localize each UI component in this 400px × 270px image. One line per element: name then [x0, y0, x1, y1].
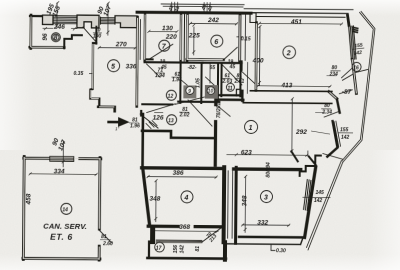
hall13 door swing to room9	[147, 97, 213, 127]
balcony bottom edge	[342, 69, 367, 80]
room 3 outer bottom line	[226, 237, 303, 245]
pier top wall x114-136	[115, 16, 137, 28]
room 4 east wall	[223, 167, 225, 260]
room 9 west wall	[179, 63, 181, 103]
room 2 dim line 451	[259, 22, 342, 25]
hollow wall cores	[23, 13, 357, 261]
room 2 dim line 413	[257, 85, 330, 88]
svg-text:220: 220	[165, 34, 177, 41]
svg-text:1°: 1°	[115, 126, 120, 131]
room 11 east wall	[239, 63, 241, 96]
room 14 outer box	[23, 156, 101, 260]
vestibule door swing	[240, 70, 257, 85]
svg-text:234: 234	[329, 72, 339, 78]
entry hatch marks	[146, 121, 157, 129]
svg-text:270: 270	[115, 41, 127, 48]
svg-text:16: 16	[353, 65, 359, 71]
window band B	[100, 17, 115, 24]
room 17 bottom wall	[147, 257, 225, 260]
room 4 west wall slanted	[142, 168, 150, 226]
svg-text:1.94: 1.94	[172, 77, 182, 83]
svg-text:2.01: 2.01	[233, 79, 244, 85]
room1/room2 divider wall	[243, 91, 332, 104]
svg-text:0.35: 0.35	[74, 71, 84, 77]
room 6 circle	[211, 35, 223, 47]
svg-text:126: 126	[153, 115, 164, 122]
room 9 shaded block	[183, 85, 196, 98]
room 6 door swing	[223, 47, 237, 60]
entry arrow	[109, 121, 120, 124]
room 4 dim line 386	[148, 176, 217, 179]
corner pier left of band A	[42, 15, 53, 24]
svg-text:10: 10	[208, 89, 214, 95]
svg-text:142: 142	[314, 198, 323, 204]
svg-text:130: 130	[162, 25, 173, 32]
entry door swing	[140, 114, 158, 128]
svg-text:145: 145	[315, 190, 324, 196]
corridor shaft line right of room6	[236, 14, 260, 85]
room 17 circle	[155, 242, 165, 252]
room 9 circle	[186, 86, 194, 94]
corridor east wall under room6	[241, 61, 243, 69]
svg-text:155: 155	[340, 127, 349, 133]
svg-text:2: 2	[286, 50, 291, 57]
dim end ticks	[28, 1, 343, 234]
svg-text:3: 3	[264, 195, 268, 202]
svg-text:81: 81	[101, 234, 107, 240]
circled room numbers	[49, 33, 361, 254]
room 14 door swing	[99, 230, 112, 243]
room 5 dim line 270	[99, 47, 136, 49]
room 11 bottom wall	[219, 94, 241, 96]
svg-text:246: 246	[53, 24, 65, 31]
top outer wall rooms 7/6	[137, 11, 251, 15]
balcony 16 window hatch	[348, 26, 356, 60]
svg-text:142: 142	[179, 245, 185, 254]
room 6 west wall	[186, 14, 189, 61]
balcony window top pier	[353, 27, 358, 32]
room 2 top wall	[251, 13, 348, 18]
room1 west wall	[214, 96, 218, 165]
terrace lower edge D2	[307, 153, 343, 250]
room1 east window hatch	[332, 121, 341, 147]
hall12/hall13 divider	[142, 103, 172, 105]
room4 NW connector wall	[141, 114, 144, 167]
svg-text:332: 332	[257, 220, 268, 227]
dim line 246	[43, 27, 77, 29]
tick 0.30	[271, 245, 275, 250]
hall12 door swing	[147, 64, 161, 77]
room1 top-left jog wall	[216, 91, 243, 101]
room 3 top door swing	[291, 151, 321, 176]
terrace outer edge D1	[342, 11, 375, 162]
svg-text:225: 225	[188, 32, 200, 39]
room1 east wall slanted	[327, 99, 340, 157]
room 4 circle	[181, 191, 193, 203]
room1 west door swing	[217, 105, 231, 116]
room 14 circle	[61, 203, 72, 214]
svg-text:9: 9	[188, 89, 191, 95]
room 2 circle	[283, 46, 296, 59]
room 3 east wall slanted	[305, 167, 316, 238]
room 12 circle	[166, 90, 176, 100]
svg-text:368: 368	[179, 224, 190, 231]
room 14 window dim line	[62, 141, 64, 167]
room1 NE corner wall	[329, 92, 337, 99]
svg-text:14: 14	[62, 207, 68, 213]
svg-text:5: 5	[111, 64, 115, 71]
terrace door swing from room2	[342, 68, 353, 78]
room 17 west wall	[148, 242, 150, 258]
svg-text:ET. 6: ET. 6	[50, 232, 73, 242]
room 11 SE step	[236, 89, 241, 96]
room 2 west wall	[255, 22, 258, 90]
svg-text:336: 336	[126, 63, 137, 70]
svg-text:334: 334	[54, 168, 65, 175]
svg-text:156: 156	[173, 245, 179, 254]
room 14 dim line 334	[30, 173, 97, 176]
room 8 bottom wall	[30, 46, 64, 49]
room 10 door swing	[205, 77, 217, 88]
svg-text:1.94: 1.94	[155, 73, 165, 79]
room 16 circle	[352, 62, 361, 71]
room 7 circle	[159, 40, 170, 51]
hall13 bottom wall	[142, 131, 214, 138]
svg-text:292: 292	[295, 129, 307, 136]
svg-text:623: 623	[241, 149, 252, 156]
room 10 dim line vertical	[209, 63, 211, 83]
room 8 left outer wall	[29, 15, 32, 48]
svg-text:1: 1	[249, 125, 253, 132]
svg-text:80/194: 80/194	[266, 162, 272, 178]
svg-text:2.03: 2.03	[221, 79, 232, 85]
vent ticks group1	[172, 2, 178, 12]
room 13 circle	[167, 115, 177, 125]
svg-text:400: 400	[252, 57, 264, 64]
room 11 west wall	[220, 63, 222, 96]
room 4 top wall	[142, 166, 222, 170]
shaft between 7 and 6	[183, 14, 185, 61]
room 9 door diag	[181, 80, 194, 91]
corridor dim line vertical	[246, 62, 248, 93]
svg-text:17: 17	[156, 246, 162, 252]
room 6 east wall	[238, 14, 241, 61]
room 3 top wall	[234, 167, 301, 171]
svg-text:1.96: 1.96	[130, 123, 140, 129]
room 4 dim line 348 vertical	[155, 181, 157, 222]
svg-text:142: 142	[341, 135, 350, 141]
svg-text:142: 142	[353, 50, 362, 57]
room1 terrace door swing	[324, 112, 338, 118]
svg-text:CAN. SERV.: CAN. SERV.	[43, 222, 87, 231]
svg-text:-82-: -82-	[188, 65, 197, 71]
room 3 circle	[260, 191, 272, 203]
svg-text:100: 100	[93, 34, 102, 40]
svg-text:451: 451	[290, 19, 302, 26]
door 70/100 swing	[83, 27, 96, 42]
svg-text:6: 6	[214, 39, 218, 46]
svg-text:2.02: 2.02	[179, 112, 190, 118]
room 8 top wall stub	[30, 15, 43, 17]
room 10 dark fill	[205, 85, 218, 99]
svg-text:12: 12	[168, 94, 174, 100]
vent ticks group2	[204, 3, 210, 13]
dim line 292 vertical	[291, 99, 293, 151]
room 17 top band	[156, 240, 202, 243]
room 5 bottom wall	[98, 107, 115, 111]
room 7 south wall stub	[145, 58, 153, 60]
room 7 west wall	[143, 14, 146, 61]
room 3 west wall	[234, 167, 238, 243]
svg-text:13: 13	[168, 118, 174, 124]
room 11 door swing	[222, 65, 242, 85]
rooms 9/10 bottom wall	[178, 101, 219, 104]
shaft lines right of room5 wall	[139, 19, 141, 59]
room 5 east wall	[135, 17, 138, 106]
room 2 notch top-left	[250, 13, 256, 23]
room 14 window band	[50, 156, 74, 161]
fraction bars	[91, 33, 364, 242]
room 1 circle	[245, 120, 258, 133]
entry arrow head	[118, 117, 130, 127]
duct lines between 4 and 3	[228, 171, 233, 239]
svg-text:386: 386	[173, 170, 184, 177]
svg-text:0.15: 0.15	[241, 36, 251, 42]
room 3 bottom wall	[239, 236, 303, 239]
dim line window A	[56, 3, 58, 28]
svg-text:96: 96	[42, 33, 49, 41]
room 3 dim line 332	[242, 224, 289, 226]
room 17 black block	[150, 228, 155, 242]
svg-text:2.60: 2.60	[102, 241, 113, 247]
corridor steps below room 8	[64, 35, 82, 48]
room 8 circle	[51, 33, 60, 42]
room 3 dim line 623	[227, 150, 308, 156]
rooms 9/10 top wall	[145, 61, 203, 64]
room 9 east wall	[200, 63, 202, 103]
window band A room 8	[53, 15, 77, 24]
room 4 bottom wall	[148, 225, 221, 229]
svg-text:0.30: 0.30	[276, 248, 286, 254]
room 10 east wall	[217, 63, 219, 101]
entry wall stub	[140, 111, 142, 115]
svg-text:45: 45	[229, 64, 236, 70]
pier top wall x77-96	[77, 15, 99, 28]
svg-text:80: 80	[332, 65, 338, 71]
svg-text:413: 413	[280, 82, 292, 89]
svg-text:-87: -87	[342, 89, 352, 96]
room 11 circle	[226, 83, 234, 91]
room 3 east window hatch	[304, 180, 313, 211]
room 5 circle	[108, 60, 120, 72]
svg-text:348: 348	[149, 196, 160, 203]
room 4 dim line 368	[152, 230, 218, 233]
svg-text:348: 348	[241, 195, 248, 206]
room 6 south wall	[187, 58, 224, 61]
svg-text:78/201: 78/201	[216, 103, 222, 119]
room 2 east wall slanted	[347, 15, 357, 93]
room 6 dim line 242	[149, 6, 243, 55]
svg-text:80: 80	[324, 103, 330, 109]
room 17 door diag	[202, 228, 221, 242]
svg-text:11: 11	[227, 86, 232, 92]
svg-text:81: 81	[195, 246, 201, 252]
room 5 west wall	[90, 43, 100, 107]
room 7 east wall	[179, 14, 182, 61]
room 3 dim line 348 vertical	[244, 176, 246, 232]
wall right of door	[95, 27, 97, 44]
lighter scan edges	[0, 0, 400, 16]
svg-text:4: 4	[183, 195, 188, 202]
svg-text:45: 45	[160, 65, 167, 71]
svg-text:242: 242	[207, 17, 219, 24]
dim line window B	[107, 3, 109, 35]
svg-text:458: 458	[25, 193, 32, 205]
leader line 87	[339, 90, 352, 94]
svg-text:1.05: 1.05	[195, 78, 201, 88]
svg-text:8: 8	[54, 35, 58, 42]
svg-text:65: 65	[210, 65, 216, 71]
room 10 circle	[207, 87, 215, 95]
room 7 door swing	[149, 44, 173, 60]
